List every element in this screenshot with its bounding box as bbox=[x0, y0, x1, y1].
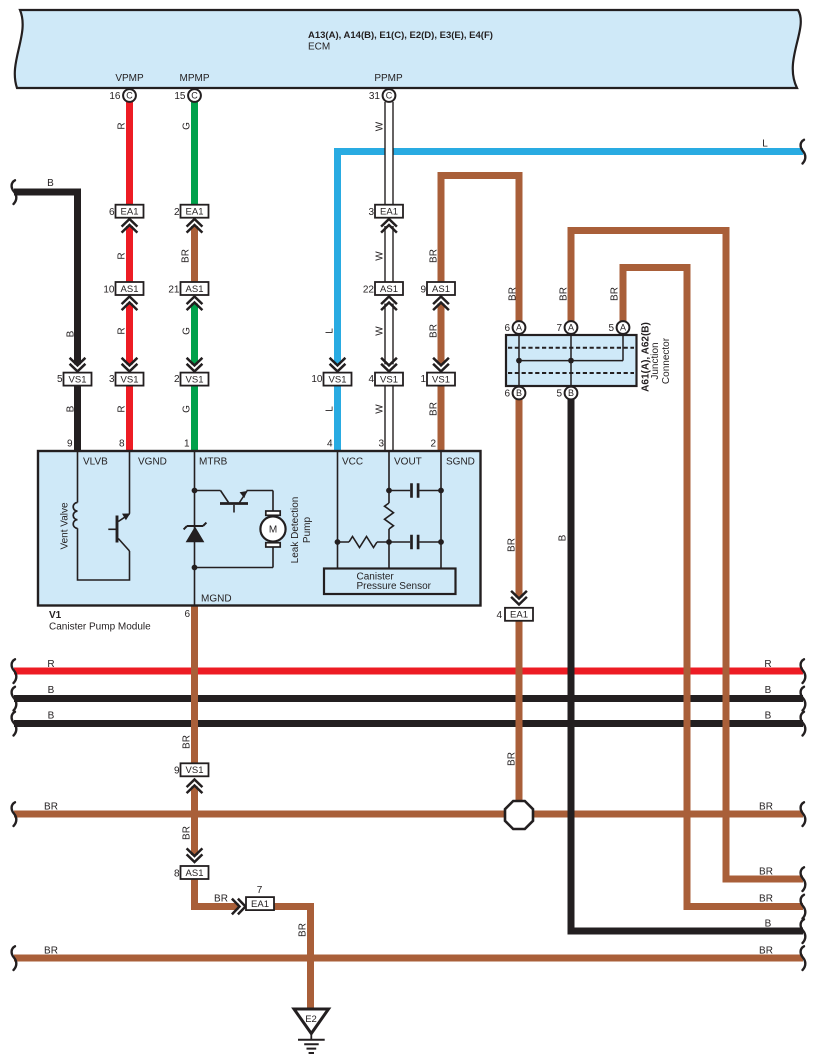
wire: brown BR junction 7(A) loop to right lower BR bbox=[559, 231, 806, 892]
svg-text:2: 2 bbox=[174, 374, 180, 385]
pin numbers above module bbox=[67, 439, 437, 450]
wire: brown BR junction 6(B) down to splice bbox=[507, 386, 520, 815]
svg-text:BR: BR bbox=[508, 287, 519, 301]
svg-text:A: A bbox=[568, 323, 574, 333]
connector 9 VS1 (bottom) bbox=[174, 763, 209, 793]
svg-text:SGND: SGND bbox=[446, 457, 475, 468]
svg-text:BR: BR bbox=[759, 802, 773, 813]
svg-text:A13(A), A14(B), E1(C), E2(D),: A13(A), A14(B), E1(C), E2(D), E3(E), E4(… bbox=[308, 30, 493, 41]
svg-text:R: R bbox=[47, 659, 54, 670]
svg-text:MTRB: MTRB bbox=[199, 457, 228, 468]
svg-text:10: 10 bbox=[311, 374, 323, 385]
svg-text:Canister Pump Module: Canister Pump Module bbox=[49, 622, 151, 633]
svg-text:C: C bbox=[191, 91, 198, 101]
svg-text:BR: BR bbox=[759, 894, 773, 905]
resistor R2 and capacitor C2 bottom row bbox=[338, 535, 442, 549]
svg-text:BR: BR bbox=[759, 867, 773, 878]
wire: black bus B upper bbox=[12, 685, 806, 711]
svg-text:VOUT: VOUT bbox=[394, 457, 422, 468]
svg-text:16: 16 bbox=[109, 91, 121, 102]
svg-text:5: 5 bbox=[57, 374, 63, 385]
svg-text:BR: BR bbox=[44, 946, 58, 957]
wire: brown BR segment EA1 to AS1 bbox=[181, 226, 195, 289]
connector 9 AS1 bbox=[420, 282, 455, 310]
svg-text:Pump: Pump bbox=[302, 517, 313, 544]
svg-text:AS1: AS1 bbox=[186, 868, 204, 879]
svg-text:2: 2 bbox=[430, 439, 436, 450]
connector 7 EA1 (bottom) bbox=[232, 885, 274, 914]
pressure sensor VOUT line with resistor R1 bbox=[385, 451, 394, 569]
wire: brown BR SGND up over to junction 6(A) bbox=[429, 176, 520, 452]
svg-text:AS1: AS1 bbox=[432, 284, 450, 295]
svg-text:3: 3 bbox=[368, 207, 374, 218]
connector 5 VS1 bbox=[57, 358, 92, 386]
svg-text:4: 4 bbox=[368, 374, 374, 385]
svg-text:MGND: MGND bbox=[201, 594, 232, 605]
junction pin 5 B bbox=[556, 387, 577, 400]
svg-text:BR: BR bbox=[429, 402, 440, 416]
connector 21 AS1 bbox=[168, 282, 208, 310]
svg-text:BR: BR bbox=[429, 249, 440, 263]
svg-text:W: W bbox=[375, 326, 386, 336]
svg-text:R: R bbox=[117, 122, 128, 129]
svg-text:W: W bbox=[375, 251, 386, 261]
svg-text:W: W bbox=[375, 404, 386, 414]
svg-text:VS1: VS1 bbox=[121, 374, 139, 385]
svg-text:22: 22 bbox=[363, 285, 375, 296]
svg-text:Connector: Connector bbox=[661, 337, 672, 384]
svg-text:VS1: VS1 bbox=[432, 374, 450, 385]
connector 8 AS1 (bottom) bbox=[174, 848, 209, 879]
connector 3 EA1 bbox=[368, 205, 403, 233]
transistor Q2 pump motor driver bbox=[195, 491, 274, 513]
connector 4 EA1 (right column) bbox=[496, 591, 533, 621]
svg-text:B: B bbox=[66, 405, 77, 412]
svg-text:VCC: VCC bbox=[342, 457, 363, 468]
svg-text:EA1: EA1 bbox=[121, 207, 139, 218]
svg-text:BR: BR bbox=[507, 538, 518, 552]
pressure sensor SGND line bbox=[438, 451, 444, 569]
svg-text:A: A bbox=[516, 323, 522, 333]
svg-text:10: 10 bbox=[103, 285, 115, 296]
svg-text:1: 1 bbox=[184, 439, 190, 450]
svg-text:7: 7 bbox=[257, 885, 263, 896]
svg-text:G: G bbox=[182, 122, 193, 130]
svg-text:1: 1 bbox=[420, 374, 426, 385]
svg-text:G: G bbox=[182, 327, 193, 335]
svg-text:BR: BR bbox=[182, 826, 193, 840]
svg-text:BR: BR bbox=[182, 735, 193, 749]
vent valve coil L1 bbox=[60, 451, 130, 580]
wire: light blue L from right edge to VCC bbox=[325, 139, 806, 452]
wire: green G MPMP pin15 to EA1 bbox=[182, 102, 195, 212]
svg-text:3: 3 bbox=[378, 439, 384, 450]
connector 2 VS1 bbox=[174, 358, 209, 386]
wire: brown ground bus BR lower bbox=[12, 946, 806, 971]
svg-text:6: 6 bbox=[504, 323, 510, 334]
transistor Q1 vent valve driver bbox=[108, 451, 130, 551]
svg-text:B: B bbox=[47, 178, 54, 189]
svg-text:R: R bbox=[117, 405, 128, 412]
connector 6 EA1 bbox=[109, 205, 144, 233]
svg-text:VS1: VS1 bbox=[329, 374, 347, 385]
svg-text:R: R bbox=[117, 327, 128, 334]
svg-text:B: B bbox=[558, 534, 569, 541]
svg-text:9: 9 bbox=[420, 285, 426, 296]
junction pin 5 A bbox=[608, 321, 629, 334]
connector 4 VS1 bbox=[368, 358, 403, 386]
svg-text:BR: BR bbox=[44, 802, 58, 813]
svg-text:4: 4 bbox=[496, 610, 502, 621]
wire: black bus B lower bbox=[12, 711, 806, 736]
junction pin 7 A bbox=[556, 321, 577, 334]
svg-text:A: A bbox=[620, 323, 626, 333]
svg-text:7: 7 bbox=[556, 323, 562, 334]
svg-text:M: M bbox=[269, 525, 277, 536]
svg-text:5: 5 bbox=[556, 389, 562, 400]
svg-text:9: 9 bbox=[174, 766, 180, 777]
capacitor C1 top bbox=[389, 483, 441, 497]
svg-text:PPMP: PPMP bbox=[374, 73, 403, 84]
svg-text:8: 8 bbox=[119, 439, 125, 450]
pressure sensor VCC line bbox=[335, 451, 341, 569]
svg-text:VS1: VS1 bbox=[380, 374, 398, 385]
svg-text:ECM: ECM bbox=[308, 42, 330, 53]
svg-text:B: B bbox=[48, 685, 55, 696]
svg-text:8: 8 bbox=[174, 869, 180, 880]
svg-text:C: C bbox=[126, 91, 133, 101]
svg-text:E2: E2 bbox=[305, 1014, 317, 1025]
svg-text:3: 3 bbox=[109, 374, 115, 385]
svg-text:B: B bbox=[516, 388, 522, 398]
svg-text:BR: BR bbox=[181, 249, 192, 263]
svg-text:EA1: EA1 bbox=[510, 610, 528, 621]
ground E2 bbox=[294, 1009, 329, 1053]
canister pressure sensor box bbox=[324, 569, 456, 595]
svg-text:AS1: AS1 bbox=[380, 284, 398, 295]
wire: black B from left to 5 VS1 (VLVB) bbox=[12, 178, 78, 451]
svg-text:R: R bbox=[117, 252, 128, 259]
pin 16 C (VPMP) bbox=[109, 89, 136, 102]
svg-text:V1: V1 bbox=[49, 610, 62, 621]
svg-text:4: 4 bbox=[327, 439, 333, 450]
svg-text:B: B bbox=[568, 388, 574, 398]
svg-text:L: L bbox=[325, 406, 336, 412]
svg-text:AS1: AS1 bbox=[186, 284, 204, 295]
svg-text:VS1: VS1 bbox=[186, 374, 204, 385]
svg-text:BR: BR bbox=[214, 894, 228, 905]
wire: brown BR MGND down through VS1/AS1/EA1 to E2 ground bbox=[182, 606, 311, 1009]
wire: red power bus R bbox=[12, 659, 806, 683]
svg-text:2: 2 bbox=[174, 207, 180, 218]
junction pin 6 B bbox=[504, 387, 525, 400]
svg-text:BR: BR bbox=[559, 287, 570, 301]
motor M leak detection pump bbox=[195, 491, 314, 568]
svg-text:VLVB: VLVB bbox=[83, 457, 108, 468]
svg-text:EA1: EA1 bbox=[380, 207, 398, 218]
junction connector A61(A) A62(B) bbox=[506, 322, 672, 392]
svg-text:6: 6 bbox=[109, 207, 115, 218]
svg-text:21: 21 bbox=[168, 285, 180, 296]
svg-text:Vent Valve: Vent Valve bbox=[60, 502, 71, 550]
svg-text:B: B bbox=[765, 919, 772, 930]
wire: green G segment AS1 to MTRB bbox=[182, 304, 195, 452]
svg-text:VS1: VS1 bbox=[186, 765, 204, 776]
svg-text:EA1: EA1 bbox=[186, 207, 204, 218]
svg-text:B: B bbox=[765, 685, 772, 696]
connector 2 EA1 bbox=[174, 205, 209, 233]
svg-text:MPMP: MPMP bbox=[180, 73, 210, 84]
pin 15 C (MPMP) bbox=[174, 89, 201, 102]
svg-text:R: R bbox=[764, 659, 771, 670]
svg-text:BR: BR bbox=[759, 946, 773, 957]
svg-text:VGND: VGND bbox=[138, 457, 167, 468]
wire: brown ground bus BR upper bbox=[12, 802, 806, 827]
svg-text:G: G bbox=[182, 405, 193, 413]
svg-text:5: 5 bbox=[608, 323, 614, 334]
svg-text:BR: BR bbox=[507, 752, 518, 766]
pin 31 C (PPMP) bbox=[369, 89, 396, 102]
svg-text:6: 6 bbox=[184, 609, 190, 620]
svg-text:C: C bbox=[386, 91, 393, 101]
connector 3 VS1 bbox=[109, 358, 144, 386]
svg-text:VS1: VS1 bbox=[69, 374, 87, 385]
ECM block bbox=[15, 10, 801, 88]
wire: brown BR junction 5(A) loop to right lower BR bbox=[610, 268, 806, 919]
wire: white W PPMP pin31 to VOUT bbox=[375, 102, 390, 451]
connector 22 AS1 bbox=[363, 282, 403, 310]
connector 1 VS1 bbox=[420, 358, 455, 386]
junction pin 6 A bbox=[504, 321, 525, 334]
svg-text:B: B bbox=[765, 711, 772, 722]
connector 10 AS1 bbox=[103, 282, 143, 310]
svg-text:31: 31 bbox=[369, 91, 381, 102]
svg-text:9: 9 bbox=[67, 439, 73, 450]
zener diode D1 bbox=[184, 523, 207, 542]
svg-text:Pressure Sensor: Pressure Sensor bbox=[357, 581, 432, 592]
wire: black B junction 5(B) down to right edge bbox=[558, 386, 806, 943]
svg-text:BR: BR bbox=[298, 923, 309, 937]
svg-text:BR: BR bbox=[610, 287, 621, 301]
canister pump module V1 box bbox=[38, 451, 481, 633]
svg-text:B: B bbox=[48, 711, 55, 722]
svg-text:6: 6 bbox=[504, 389, 510, 400]
splice octagon junction bbox=[505, 801, 533, 829]
connector 10 VS1 bbox=[311, 358, 351, 386]
wire: red R VPMP pin16 to VGND bbox=[117, 102, 130, 451]
svg-text:L: L bbox=[762, 139, 768, 150]
svg-text:EA1: EA1 bbox=[251, 899, 269, 910]
svg-text:VPMP: VPMP bbox=[115, 73, 144, 84]
MTRB line with junctions bbox=[192, 451, 198, 606]
svg-text:15: 15 bbox=[174, 91, 186, 102]
svg-text:Leak Detection: Leak Detection bbox=[290, 497, 301, 564]
svg-text:L: L bbox=[325, 328, 336, 334]
svg-text:Junction: Junction bbox=[650, 342, 661, 379]
svg-text:AS1: AS1 bbox=[121, 284, 139, 295]
svg-text:BR: BR bbox=[429, 324, 440, 338]
svg-text:W: W bbox=[375, 121, 386, 131]
svg-text:B: B bbox=[66, 330, 77, 337]
